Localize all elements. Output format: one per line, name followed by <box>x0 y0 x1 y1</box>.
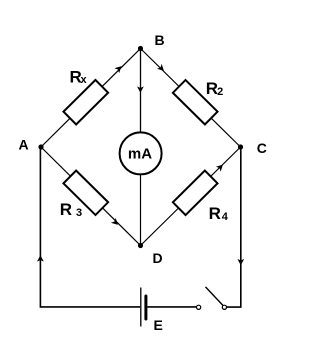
arrow current A to B <box>114 64 123 73</box>
node C <box>238 144 243 149</box>
wire A-D <box>41 147 141 246</box>
resistor R4 <box>173 171 218 215</box>
svg-text:R2: R2 <box>206 79 224 98</box>
svg-text:B: B <box>155 32 165 48</box>
svg-text:D: D <box>153 250 163 266</box>
arrow current A to D <box>111 218 120 227</box>
wire switch to C <box>227 147 241 307</box>
wire A down-left to battery <box>40 147 140 307</box>
switch left terminal <box>197 305 201 309</box>
svg-text:Rx: Rx <box>70 67 88 86</box>
svg-text:R3: R3 <box>60 200 82 219</box>
wire B to meter <box>140 49 142 133</box>
battery E positive plate <box>140 288 142 327</box>
wire meter to D <box>140 175 142 246</box>
svg-text:mA: mA <box>128 145 152 162</box>
wire B-C <box>141 49 241 148</box>
wire A-B <box>41 49 141 148</box>
node D <box>138 243 143 248</box>
svg-text:R4: R4 <box>209 204 229 223</box>
arrow current B to C <box>157 64 166 73</box>
ammeter mA <box>120 132 162 174</box>
svg-text:E: E <box>154 317 163 333</box>
battery E negative plate <box>144 296 147 319</box>
node B <box>138 46 143 51</box>
arrow current D to C <box>216 162 225 171</box>
switch lever <box>206 287 223 306</box>
svg-text:C: C <box>257 140 267 156</box>
resistor R3 <box>63 171 108 215</box>
node A <box>38 144 43 149</box>
wire D-C <box>141 147 241 246</box>
resistor Rx <box>63 80 108 124</box>
resistor R2 <box>173 80 218 124</box>
arrow current down right wire <box>237 259 244 266</box>
arrow current up left wire <box>37 255 44 262</box>
switch right terminal <box>222 305 226 309</box>
svg-text:A: A <box>19 137 29 153</box>
arrow current B to meter <box>137 86 144 93</box>
wire battery to switch <box>148 306 197 308</box>
